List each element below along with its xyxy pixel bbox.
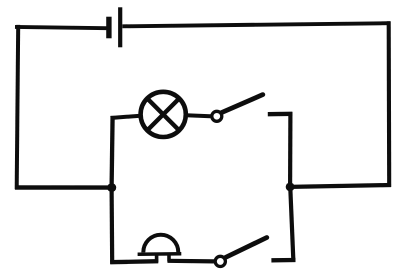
- wire middle rail left segment: [15, 185, 112, 190]
- wire top-right (battery positive to right rail): [122, 23, 390, 26]
- bell right lead: [167, 254, 171, 262]
- battery B1 negative plate: [106, 17, 111, 39]
- switch S2 right terminal stub: [271, 258, 295, 263]
- junction node left: [107, 183, 116, 192]
- battery B1 positive plate: [118, 7, 122, 47]
- switch S1 right terminal stub: [268, 112, 293, 117]
- switch S2 lever (open): [226, 238, 267, 258]
- wire lamp branch left vertical: [112, 116, 113, 187]
- bell Y1 (dome and base): [138, 235, 182, 255]
- switch S1 pivot contact: [212, 111, 222, 121]
- wire left vertical rail: [17, 25, 19, 189]
- wire middle rail right segment: [290, 185, 391, 187]
- wire bell to switch S2: [168, 259, 215, 264]
- switch S2 pivot contact: [215, 256, 225, 266]
- bell left lead: [155, 254, 159, 263]
- lamp L1: [141, 92, 186, 137]
- wire lamp branch left horizontal: [111, 116, 141, 118]
- wire bell branch left vertical: [109, 188, 114, 264]
- wire bell branch left horizontal: [110, 261, 158, 262]
- wire top-left (battery negative to left rail): [15, 27, 107, 28]
- switch S1 lever (open): [222, 95, 263, 113]
- wire switch S2 to right junction: [290, 188, 293, 262]
- wire lamp to switch S1: [186, 115, 211, 116]
- wire right vertical rail: [387, 21, 392, 187]
- junction node right: [286, 183, 295, 192]
- wire switch S1 to right junction: [288, 112, 292, 187]
